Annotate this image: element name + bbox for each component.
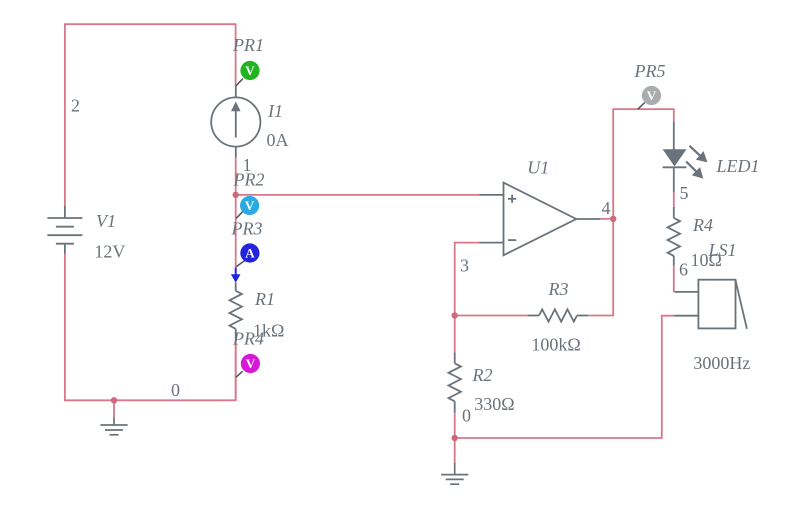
wire LED to R4 node5 (673, 192, 675, 207)
probe PR2 (236, 196, 259, 219)
svg-text:R3: R3 (548, 279, 569, 299)
junction node 0 left (111, 397, 117, 403)
op-amp U1 (480, 183, 601, 256)
svg-text:I1: I1 (267, 101, 283, 121)
wire ground stem right (454, 438, 456, 462)
wire node4 up to LED (613, 109, 674, 219)
svg-text:2: 2 (71, 96, 80, 116)
wire node3 to R3 (455, 315, 528, 317)
wire node0 to LS1 (455, 316, 675, 438)
svg-text:PR3: PR3 (231, 219, 263, 239)
probe PR4 (236, 354, 260, 377)
svg-text:U1: U1 (527, 158, 549, 178)
wire R4 to LS1 node6 (673, 266, 675, 292)
probe PR1 (236, 61, 260, 86)
wire I1 to node1 (235, 158, 237, 195)
wire R2 to node0 (454, 413, 456, 438)
LED LED1 (663, 122, 687, 192)
svg-text:5: 5 (680, 183, 689, 203)
ground right (441, 462, 468, 484)
svg-text:0A: 0A (267, 130, 289, 150)
resistor R3 (527, 309, 588, 321)
resistor R2 (449, 353, 461, 413)
junction node 1 (233, 192, 239, 198)
svg-text:3000Hz: 3000Hz (693, 353, 750, 373)
svg-text:PR1: PR1 (232, 35, 264, 55)
svg-text:R4: R4 (692, 215, 713, 235)
junction node 4 (610, 216, 616, 222)
wire node1 down to R1 (235, 195, 237, 268)
wire net0 bottom left (65, 254, 236, 400)
wire node3 down to R2 (454, 316, 456, 353)
svg-text:V: V (647, 88, 657, 103)
svg-text:V1: V1 (96, 211, 116, 231)
probe PR3 (237, 243, 260, 266)
resistor R4 (668, 207, 680, 266)
svg-text:LS1: LS1 (708, 240, 737, 260)
ground left (100, 417, 127, 435)
junction node 3 (452, 312, 458, 318)
probe PR5 (638, 86, 661, 109)
svg-text:4: 4 (602, 198, 611, 218)
svg-text:LED1: LED1 (716, 156, 760, 176)
battery V1 (47, 206, 82, 254)
svg-text:3: 3 (460, 256, 469, 276)
svg-text:R1: R1 (254, 289, 275, 309)
svg-text:0: 0 (462, 406, 471, 426)
svg-text:100kΩ: 100kΩ (531, 335, 580, 355)
svg-text:A: A (245, 246, 255, 261)
wire R1 bottom to net0 (235, 341, 237, 400)
speaker LS1 (674, 280, 747, 329)
svg-text:V: V (246, 356, 256, 371)
svg-text:PR5: PR5 (634, 61, 666, 81)
wire net3 inverting input (455, 243, 480, 316)
current source I1 (211, 86, 260, 158)
svg-text:6: 6 (679, 260, 688, 280)
svg-text:0: 0 (171, 380, 180, 400)
resistor R1 (230, 283, 242, 342)
svg-text:330Ω: 330Ω (474, 394, 514, 414)
wire ground stem left (113, 400, 115, 417)
wire op-amp output to node4 (601, 218, 614, 220)
svg-text:PR4: PR4 (232, 329, 264, 349)
wire net2 top loop (65, 24, 236, 206)
svg-text:V: V (245, 198, 255, 213)
junction node 0 right (452, 435, 458, 441)
svg-text:PR2: PR2 (233, 170, 265, 190)
svg-text:V: V (245, 63, 255, 78)
wire R3 to node4 (588, 219, 613, 316)
wire node1 horizontal to op-amp (236, 194, 480, 196)
svg-text:12V: 12V (94, 242, 125, 262)
current arrow PR3 (231, 268, 241, 283)
svg-text:R2: R2 (472, 365, 493, 385)
